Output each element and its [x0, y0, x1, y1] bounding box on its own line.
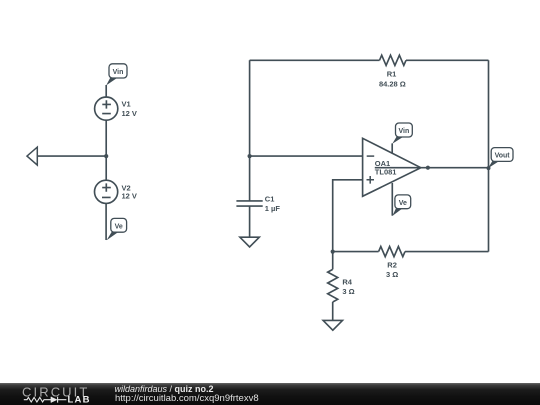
flag Vout: [488, 148, 513, 169]
svg-text:12 V: 12 V: [122, 192, 137, 201]
wire positive supply pin: [391, 143, 393, 153]
flag Ve (bottom left): [107, 218, 127, 240]
node flag arrow (left reference): [27, 147, 37, 165]
junction at op-amp output: [426, 166, 430, 170]
wire V2 to Ve flag: [105, 203, 107, 240]
svg-text:http://circuitlab.com/cxq9n9fr: http://circuitlab.com/cxq9n9frtexv8: [115, 393, 259, 404]
svg-text:12 V: 12 V: [122, 109, 137, 118]
wire top net horizontal left of R1: [250, 59, 380, 61]
op-amp minus mark: [367, 155, 375, 157]
svg-text:C1: C1: [265, 195, 275, 204]
voltage source V1: [95, 97, 118, 120]
wire op-amp output: [375, 167, 489, 169]
op-amp OA1: [363, 138, 421, 196]
flag Vin (top left): [106, 64, 127, 86]
junction at output/Vout corner: [487, 166, 491, 170]
svg-text:84.28 Ω: 84.28 Ω: [379, 79, 406, 88]
junction at sources: [104, 154, 108, 158]
resistor R1: [380, 55, 407, 65]
svg-text:3 Ω: 3 Ω: [386, 270, 398, 279]
wire R4 to ground: [332, 302, 334, 320]
capacitor C1: [236, 201, 262, 206]
svg-text:R1: R1: [387, 70, 397, 79]
resistor R4: [328, 269, 338, 302]
wire R1 to right vertical: [406, 59, 489, 61]
svg-text:V1: V1: [122, 100, 131, 109]
svg-text:Vin: Vin: [399, 128, 410, 135]
wire inverting input: [250, 155, 363, 157]
flag Vin (op-amp V+): [392, 123, 412, 144]
wire R2 right: [405, 251, 489, 253]
logo resistor-diode glyph: [24, 397, 67, 403]
svg-text:R2: R2: [387, 261, 397, 270]
svg-text:R4: R4: [342, 277, 352, 286]
junction at R2/R4: [331, 250, 335, 254]
wire junction to V2: [105, 156, 107, 180]
svg-text:Vout: Vout: [495, 153, 511, 160]
wire V1 to junction: [105, 120, 107, 156]
wire C1 to ground: [249, 206, 251, 237]
flag Ve (op-amp V-): [392, 195, 410, 216]
svg-text:TL081: TL081: [375, 168, 397, 177]
svg-text:Ve: Ve: [399, 200, 407, 207]
resistor R2: [379, 247, 405, 257]
voltage source V2: [95, 180, 118, 203]
svg-text:Ve: Ve: [115, 224, 123, 231]
wire negative supply pin: [391, 183, 393, 216]
svg-text:OA1: OA1: [375, 159, 390, 168]
wire non-inverting input: [333, 180, 363, 252]
svg-text:1 µF: 1 µF: [265, 204, 281, 213]
wire Vin flag to V1 top: [105, 85, 107, 97]
wire top net left vertical: [249, 60, 251, 201]
junction at C1 / inverting input: [248, 154, 252, 158]
footer bar: [0, 383, 540, 405]
ground (C1): [240, 237, 259, 247]
wire R2 left: [333, 251, 379, 253]
svg-text:LAB: LAB: [68, 395, 91, 405]
wire right vertical (R1/out/R2 net): [488, 60, 490, 251]
wire junction to R4: [332, 252, 334, 270]
ground (R4): [323, 320, 342, 330]
svg-text:Vin: Vin: [113, 69, 124, 76]
svg-text:3 Ω: 3 Ω: [342, 287, 354, 296]
wire arrow to junction: [37, 155, 106, 157]
op-amp plus mark: [367, 176, 375, 184]
